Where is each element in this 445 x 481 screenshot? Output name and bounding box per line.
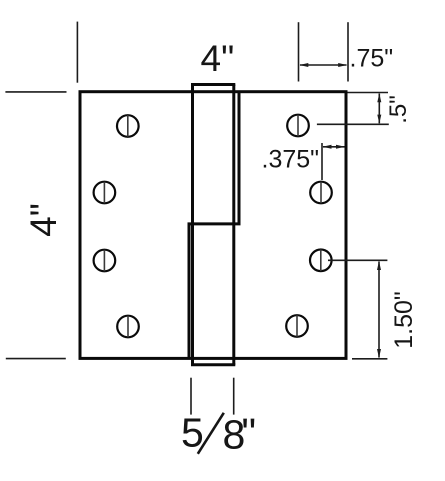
.75 dimension arrow <box>299 63 347 67</box>
corner extension line bottom-left horizontal <box>6 358 66 360</box>
knuckle top cap edge <box>191 83 235 86</box>
svg-text:.5": .5" <box>385 95 412 124</box>
.5 dimension arrow <box>377 93 381 123</box>
hole row1 leader line <box>317 123 389 125</box>
svg-text:": " <box>242 410 257 456</box>
screw hole R1 <box>287 115 309 137</box>
.75 extension line left <box>298 22 300 81</box>
hole row3 leader line <box>328 259 387 261</box>
svg-text:4": 4" <box>23 203 64 237</box>
5/8 extension line right <box>233 378 235 415</box>
1.50 bottom extension line <box>352 358 387 360</box>
.375 extension line vertical <box>321 143 323 180</box>
knuckle right line <box>232 85 235 365</box>
hinge body outline (both leaves) <box>80 92 346 359</box>
svg-text:.375": .375" <box>262 146 320 174</box>
svg-text:4": 4" <box>201 38 235 79</box>
screw hole R4 <box>286 315 308 337</box>
corner extension line top-left horizontal <box>5 91 66 93</box>
screw hole L1 <box>117 115 139 137</box>
knuckle bottom cap edge <box>191 363 235 366</box>
right leaf inner edge (upper half) <box>238 92 241 225</box>
.75 extension line right <box>347 22 349 81</box>
1.50 dimension arrow <box>377 261 381 358</box>
svg-text:1.50": 1.50" <box>390 291 418 349</box>
.375 dimension arrow <box>323 145 346 149</box>
5/8 extension line left <box>190 378 192 415</box>
corner extension line top-left vertical <box>76 22 78 83</box>
knuckle left line <box>191 85 194 365</box>
.5 extension line from top edge <box>348 92 389 94</box>
screw hole R2 <box>310 182 332 204</box>
knuckle joint line <box>188 222 241 225</box>
screw hole L3 <box>94 250 116 272</box>
left leaf inner edge (lower half) <box>188 223 191 358</box>
svg-text:.75": .75" <box>350 45 394 73</box>
screw hole R3 <box>310 249 332 271</box>
label 5/8" <box>181 410 256 458</box>
screw hole L2 <box>94 182 116 204</box>
screw hole L4 <box>117 316 139 338</box>
